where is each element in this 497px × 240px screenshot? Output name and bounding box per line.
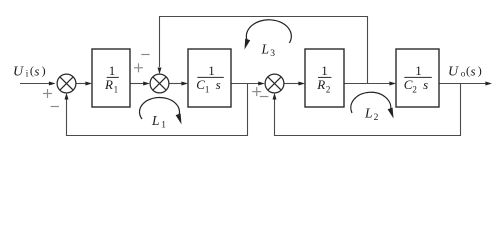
svg-text:2: 2 bbox=[412, 84, 417, 94]
wire feedback L2: takeoff after 1/C2s down, left, up into summer 3 bbox=[275, 84, 461, 136]
svg-text:(: ( bbox=[30, 64, 34, 78]
arrowhead into block 1/R2 bbox=[298, 82, 305, 86]
wire block 1/R1 to summer 2 bbox=[130, 83, 144, 85]
svg-text:U: U bbox=[13, 64, 24, 79]
svg-text:s: s bbox=[34, 63, 39, 78]
svg-text:3: 3 bbox=[270, 49, 275, 59]
fraction 1/R1 in block G1 bbox=[104, 63, 119, 95]
arrowhead into summer 3 bbox=[258, 82, 265, 86]
arrowhead into block 1/C2s bbox=[389, 82, 396, 86]
loop arc L1 bbox=[139, 97, 181, 124]
arrowhead into summer 2 bbox=[143, 82, 150, 86]
svg-text:1: 1 bbox=[109, 63, 116, 78]
summing junction 2 bbox=[150, 74, 169, 93]
svg-text:1: 1 bbox=[321, 63, 328, 78]
svg-text:s: s bbox=[471, 63, 476, 78]
wire summer1 to block 1/R1 bbox=[76, 83, 86, 85]
svg-text:U: U bbox=[448, 64, 459, 79]
svg-text:R: R bbox=[104, 77, 113, 92]
svg-text:2: 2 bbox=[374, 113, 379, 123]
sign - at summer 1 bbox=[51, 106, 60, 108]
svg-text:1: 1 bbox=[205, 84, 210, 94]
svg-text:s: s bbox=[216, 77, 221, 92]
wire input Ui to summer 1 bbox=[20, 83, 49, 85]
fraction 1/C2s in block G4 bbox=[404, 63, 432, 95]
arrowhead feedback into summer 2 (down) bbox=[158, 68, 162, 75]
sign + at summer 1 bbox=[43, 89, 52, 98]
svg-text:s: s bbox=[423, 77, 428, 92]
wire summer3 to block 1/R2 bbox=[284, 83, 299, 85]
wire block 1/R2 to block 1/C2s bbox=[344, 83, 390, 85]
sign - at summer 2 bbox=[141, 54, 150, 56]
svg-text:1: 1 bbox=[415, 63, 422, 78]
svg-text:1: 1 bbox=[161, 120, 166, 130]
fraction 1/C1s in block G2 bbox=[196, 63, 224, 95]
svg-text:1: 1 bbox=[208, 63, 215, 78]
summing junction 3 bbox=[265, 74, 284, 93]
sign + at summer 3 bbox=[252, 87, 261, 96]
block G2 = 1/C1s bbox=[188, 49, 231, 107]
svg-text:L: L bbox=[261, 41, 270, 56]
label Uo(s) bbox=[448, 63, 482, 79]
svg-text:1: 1 bbox=[114, 84, 119, 94]
summing junction 1 bbox=[57, 74, 76, 93]
svg-text:L: L bbox=[151, 113, 160, 128]
arrowhead output Uo bbox=[485, 82, 492, 86]
wire feedback L1: takeoff after 1/C1s down, left, up into summer 1 bbox=[67, 84, 248, 136]
sign - at summer 3 bbox=[260, 96, 269, 98]
svg-text:(: ( bbox=[466, 64, 470, 78]
block G1 = 1/R1 bbox=[92, 49, 130, 107]
loop arc L2 bbox=[351, 92, 394, 118]
arrowhead into block 1/C1s bbox=[181, 82, 188, 86]
block G4 = 1/C2s bbox=[396, 49, 439, 107]
wire block 1/C1s to summer 3 bbox=[231, 83, 260, 85]
loop arc L3 bbox=[245, 20, 292, 50]
svg-text:2: 2 bbox=[326, 84, 331, 94]
svg-text:i: i bbox=[26, 68, 29, 78]
arrowhead feedback into summer 1 (up) bbox=[65, 93, 69, 100]
wire summer2 to block 1/C1s bbox=[169, 83, 182, 85]
label Ui(s) bbox=[13, 63, 46, 79]
arrowhead into summer 1 bbox=[49, 82, 56, 86]
arrowhead feedback into summer 3 (up) bbox=[273, 93, 277, 100]
arrowhead into block 1/R1 bbox=[85, 82, 92, 86]
block G3 = 1/R2 bbox=[305, 49, 344, 107]
svg-text:): ) bbox=[478, 64, 482, 78]
fraction 1/R2 in block G3 bbox=[316, 63, 331, 95]
wire feedback L3: takeoff after 1/R2 up, left, down into summer 2 bbox=[160, 17, 368, 84]
sign + at summer 2 bbox=[134, 63, 143, 72]
wire block 1/C2s to output Uo bbox=[439, 83, 486, 85]
svg-text:L: L bbox=[364, 105, 373, 120]
svg-text:): ) bbox=[42, 64, 46, 78]
svg-text:R: R bbox=[316, 77, 325, 92]
